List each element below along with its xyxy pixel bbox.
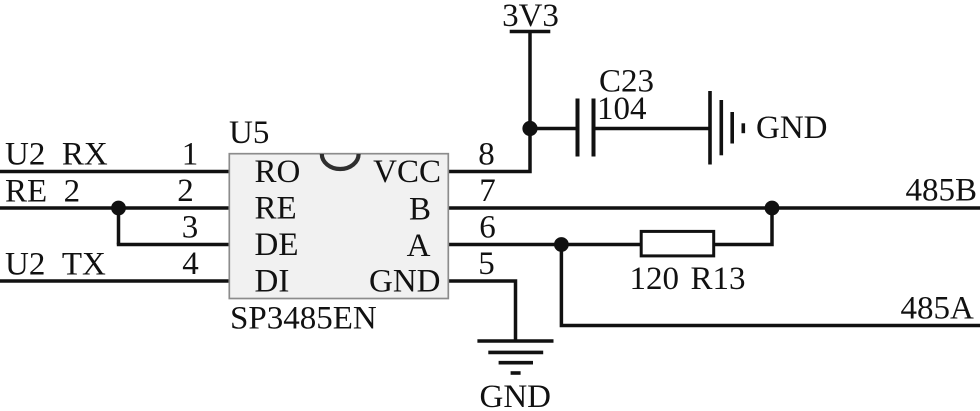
wire capacitor to right ground — [596, 127, 711, 131]
capacitor C23 right plate — [592, 99, 596, 157]
svg-text:5: 5 — [478, 246, 495, 282]
wire pin3 DE net — [117, 243, 231, 247]
junction node RE/DE — [111, 201, 126, 216]
svg-text:GND: GND — [480, 379, 552, 411]
junction node A/R13 — [554, 237, 569, 252]
svg-text:U5: U5 — [229, 115, 269, 151]
svg-text:R13: R13 — [691, 261, 746, 297]
wire pin7 B to 485B — [448, 206, 980, 210]
svg-text:GND: GND — [369, 264, 441, 300]
wire junction to capacitor C23 — [530, 127, 576, 131]
IC U5 body SP3485EN — [229, 154, 448, 299]
junction node R13/485B — [765, 201, 780, 216]
ground symbol right bar3 — [730, 112, 734, 144]
wire A-node to 485A — [561, 245, 980, 326]
ground symbol right bar2 — [719, 100, 723, 155]
IC U5 notch — [322, 154, 359, 169]
ground symbol right bar1 — [708, 91, 712, 165]
svg-text:RE: RE — [255, 191, 297, 227]
wire RE-to-DE branch vertical — [117, 208, 121, 245]
svg-text:4: 4 — [182, 246, 199, 282]
wire pin5 GND drop — [448, 281, 516, 341]
ground symbol bottom bar3 — [499, 361, 533, 365]
svg-text:RE 2: RE 2 — [5, 174, 80, 210]
svg-text:3: 3 — [182, 210, 199, 246]
svg-text:104: 104 — [597, 91, 647, 127]
wire pin6 A to resistor — [448, 243, 640, 247]
svg-text:6: 6 — [479, 210, 496, 246]
wire resistor to 485B riser — [715, 208, 772, 245]
svg-text:DI: DI — [255, 264, 290, 300]
svg-text:VCC: VCC — [373, 154, 441, 190]
svg-text:RO: RO — [255, 154, 301, 190]
svg-text:8: 8 — [478, 137, 495, 173]
svg-text:7: 7 — [479, 173, 496, 209]
wire pin1 RO net — [0, 170, 231, 174]
svg-text:485B: 485B — [906, 172, 978, 208]
ground symbol right bar4 — [741, 123, 745, 133]
svg-text:3V3: 3V3 — [502, 0, 559, 34]
ground symbol bottom bar1 — [477, 339, 553, 343]
svg-text:U2 TX: U2 TX — [5, 247, 106, 283]
power symbol 3V3 bar — [510, 30, 551, 34]
ground symbol bottom bar2 — [488, 351, 543, 355]
ground symbol bottom bar4 — [511, 371, 521, 375]
wire pin2 RE net — [0, 206, 231, 210]
wire pin4 DI net — [0, 279, 231, 283]
svg-text:1: 1 — [182, 137, 199, 173]
svg-text:2: 2 — [177, 173, 194, 209]
capacitor C23 left plate — [576, 99, 580, 157]
svg-text:GND: GND — [756, 110, 828, 146]
svg-text:DE: DE — [255, 227, 299, 263]
svg-text:120: 120 — [630, 261, 680, 297]
svg-text:U2 RX: U2 RX — [5, 137, 108, 173]
svg-text:SP3485EN: SP3485EN — [230, 301, 377, 337]
svg-text:A: A — [407, 228, 431, 264]
wire pin8 VCC to 3V3 riser — [448, 32, 530, 172]
svg-text:485A: 485A — [901, 290, 975, 326]
resistor R13 body — [641, 231, 714, 256]
junction node VCC/C23 — [522, 121, 537, 136]
svg-text:B: B — [409, 192, 431, 228]
